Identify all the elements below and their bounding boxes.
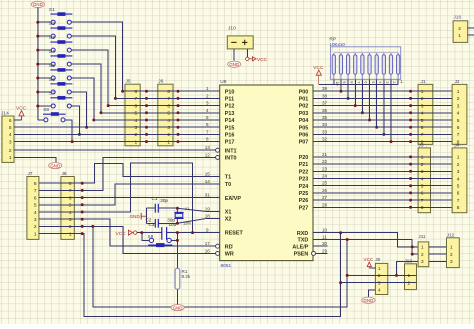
wire P11 bus row	[115, 97, 205, 99]
svg-text:2: 2	[69, 224, 72, 230]
wire S6 left pin	[38, 91, 51, 93]
wire P26 to J3/J4	[327, 199, 452, 201]
connector J3 body	[418, 148, 430, 213]
wire C3 to RESET pin	[167, 232, 206, 234]
svg-text:3: 3	[421, 103, 424, 109]
wire P22 to J3/J4	[327, 170, 452, 172]
svg-text:2: 2	[421, 252, 424, 257]
ground below R1	[171, 305, 184, 311]
svg-text:7: 7	[69, 188, 72, 194]
svg-text:J2: J2	[455, 79, 460, 85]
pin 4 P13	[205, 112, 219, 114]
svg-text:11: 11	[322, 235, 327, 240]
svg-text:9: 9	[342, 81, 347, 83]
svg-text:1: 1	[9, 155, 12, 161]
svg-text:16: 16	[205, 248, 211, 253]
wire J8 pin4 to reset rail	[39, 163, 193, 233]
junction	[145, 140, 148, 143]
svg-text:36: 36	[322, 108, 328, 113]
svg-text:T0: T0	[225, 182, 231, 188]
wire P13 bus row	[101, 112, 205, 114]
pin 9 RESET	[205, 232, 219, 234]
wire P17 bus row	[14, 141, 205, 143]
svg-text:3: 3	[385, 81, 390, 83]
svg-text:8: 8	[34, 181, 37, 187]
svg-text:8.2k: 8.2k	[182, 274, 191, 279]
svg-text:4: 4	[378, 288, 381, 293]
switch S3	[49, 35, 73, 52]
resistor RP element 4	[354, 53, 357, 80]
wire J14 pin1 to GND	[14, 157, 56, 162]
svg-text:S8: S8	[43, 107, 49, 113]
wire J9 pin4 to GND	[368, 290, 375, 297]
svg-text:21: 21	[322, 152, 328, 157]
junction	[368, 119, 371, 122]
wire J11 to J12 row2	[429, 253, 447, 255]
junction	[36, 104, 39, 107]
svg-text:S5: S5	[49, 63, 55, 69]
junction	[409, 184, 412, 187]
svg-text:J6: J6	[158, 79, 163, 85]
svg-text:3: 3	[421, 259, 424, 264]
svg-text:1: 1	[167, 139, 170, 145]
svg-text:1: 1	[206, 86, 209, 91]
svg-text:J14: J14	[1, 111, 9, 117]
svg-text:P15: P15	[225, 125, 235, 131]
svg-text:13: 13	[205, 145, 211, 150]
wire P10 bus row	[123, 90, 206, 92]
svg-text:5: 5	[457, 118, 460, 124]
svg-text:VCC: VCC	[257, 57, 268, 63]
junction	[409, 126, 412, 129]
junction	[145, 133, 148, 136]
junction	[176, 239, 179, 242]
wire S4 to P13 row	[72, 64, 102, 113]
svg-text:GND: GND	[229, 62, 239, 67]
wire P24 to J3/J4	[327, 185, 452, 187]
ground J9	[362, 297, 375, 303]
svg-text:6: 6	[364, 81, 369, 83]
svg-text:1: 1	[421, 245, 424, 250]
svg-text:5: 5	[421, 184, 424, 190]
wire J11 to J12 row1	[429, 246, 447, 248]
wire RP to P07	[390, 79, 392, 141]
wire P25 to J3/J4	[327, 192, 452, 194]
svg-text:INT1: INT1	[225, 148, 237, 154]
wire S2 left pin	[38, 35, 51, 37]
junction	[176, 207, 179, 210]
svg-text:34: 34	[322, 122, 328, 127]
junction	[411, 253, 414, 256]
junction	[36, 63, 39, 66]
svg-text:P27: P27	[299, 205, 309, 211]
svg-text:10: 10	[322, 228, 328, 233]
svg-text:5: 5	[69, 203, 72, 209]
svg-text:1: 1	[69, 231, 72, 237]
svg-text:VCC: VCC	[116, 231, 127, 237]
svg-text:6: 6	[167, 103, 170, 109]
pin 5 P14	[205, 119, 219, 121]
svg-text:GND: GND	[173, 305, 183, 310]
svg-text:P26: P26	[299, 198, 309, 204]
wire S9 right to reset node	[171, 239, 177, 241]
svg-text:5: 5	[371, 81, 376, 83]
junction	[81, 189, 84, 192]
connector J7	[27, 177, 39, 240]
svg-text:P24: P24	[299, 184, 309, 190]
svg-text:8051: 8051	[221, 263, 232, 269]
wire RP pin1 stub	[397, 79, 399, 84]
svg-text:1: 1	[421, 155, 424, 161]
junction	[140, 231, 143, 234]
junction	[176, 231, 179, 234]
pin 15 T1	[205, 176, 219, 178]
pin 18 X2	[205, 218, 219, 220]
junction	[92, 119, 95, 122]
svg-text:3: 3	[167, 125, 170, 131]
connector J8 body	[61, 177, 74, 240]
wire RP to P02	[354, 79, 356, 105]
wire P15 bus row	[14, 126, 205, 128]
junction	[145, 111, 148, 114]
svg-text:27: 27	[322, 195, 328, 200]
svg-text:J1: J1	[421, 79, 426, 85]
switch S1	[49, 7, 73, 24]
resistor RP element 7	[375, 53, 378, 80]
svg-text:4: 4	[135, 118, 138, 124]
svg-text:19: 19	[205, 206, 211, 211]
svg-text:1: 1	[458, 33, 461, 39]
wire J10 plus to VCC	[246, 49, 248, 59]
junction	[107, 104, 110, 107]
wire VCC stem	[21, 116, 23, 120]
svg-text:J16: J16	[453, 15, 461, 21]
junction	[177, 97, 180, 100]
pin 24 P23	[313, 178, 327, 180]
wire GND stem to switch bus	[37, 8, 39, 23]
svg-text:14: 14	[205, 179, 211, 184]
connector J2	[452, 84, 467, 144]
svg-text:8: 8	[167, 89, 170, 95]
wire C1-C2 common	[146, 208, 148, 223]
svg-text:2: 2	[450, 252, 453, 257]
svg-text:P05: P05	[299, 125, 309, 131]
connector J12	[447, 238, 460, 268]
junction	[339, 90, 342, 93]
svg-text:31: 31	[205, 193, 211, 198]
connector J5 body	[125, 84, 140, 146]
svg-text:3: 3	[9, 139, 12, 145]
junction	[375, 126, 378, 129]
ground below J14 pin1	[49, 163, 62, 169]
svg-text:4: 4	[206, 108, 209, 113]
svg-text:7: 7	[421, 132, 424, 138]
svg-text:2: 2	[206, 93, 209, 98]
junction	[100, 111, 103, 114]
junction	[91, 225, 94, 228]
wire J8 pin1 bottom bus to RXD	[39, 233, 341, 317]
wire J8 pin6 to EA/VP	[39, 197, 205, 199]
pin 36 P03	[313, 112, 327, 114]
wire S1 to P10 row	[72, 22, 123, 91]
plus mark	[242, 40, 247, 45]
crystal Y1 12M	[174, 206, 190, 225]
switch S7	[49, 91, 73, 108]
svg-text:PSEN: PSEN	[294, 252, 309, 258]
switch S6	[49, 77, 73, 94]
svg-text:4: 4	[69, 210, 72, 216]
pin 39 P00	[313, 90, 327, 92]
pin 34 P05	[313, 126, 327, 128]
pin 13 INT1	[205, 149, 215, 151]
svg-text:4: 4	[457, 111, 460, 117]
svg-text:4: 4	[421, 111, 424, 117]
wire RP to P03	[361, 79, 363, 113]
wire J8 pin7 to INT0	[39, 157, 216, 190]
svg-text:RESET: RESET	[225, 231, 244, 237]
svg-text:3: 3	[450, 259, 453, 264]
wire RP common bus	[334, 52, 398, 54]
svg-text:17: 17	[205, 241, 211, 246]
pin 16 WR	[205, 252, 215, 254]
junction	[145, 104, 148, 107]
resistor RP element 5	[361, 53, 364, 80]
svg-text:6: 6	[34, 195, 37, 201]
wire C1 to X1 node	[158, 207, 177, 209]
svg-text:4: 4	[9, 132, 12, 138]
wire J8 pin2 bottom bus to TXD	[93, 226, 347, 307]
pin 12 INT0	[205, 156, 215, 158]
svg-text:X1: X1	[225, 210, 232, 216]
junction	[36, 90, 39, 93]
junction	[81, 225, 84, 228]
wire P12 bus row	[108, 105, 205, 107]
pin 38 P01	[313, 97, 327, 99]
svg-text:9: 9	[206, 228, 209, 233]
svg-text:P23: P23	[299, 177, 309, 183]
connector J11	[418, 242, 429, 267]
svg-text:8: 8	[349, 81, 354, 83]
svg-text:5: 5	[135, 111, 138, 117]
svg-text:J4: J4	[455, 142, 460, 148]
wire RP pin10 stub	[333, 79, 335, 84]
svg-text:3: 3	[457, 169, 460, 175]
wire C2 left	[147, 222, 156, 224]
wire to X2	[177, 219, 205, 224]
junction	[409, 191, 412, 194]
pin 30 ALE/P	[313, 245, 327, 247]
svg-text:3: 3	[378, 280, 381, 285]
svg-text:P12: P12	[225, 104, 235, 110]
junction	[409, 199, 412, 202]
svg-text:S7: S7	[49, 91, 55, 97]
svg-text:30p: 30p	[167, 218, 175, 223]
svg-text:S2: S2	[49, 21, 55, 27]
svg-text:P00: P00	[299, 89, 309, 95]
pin 21 P20	[313, 156, 327, 158]
svg-text:P07: P07	[299, 140, 309, 146]
switch S8	[43, 107, 66, 122]
capacitor C3	[149, 222, 177, 240]
svg-text:C1: C1	[152, 196, 158, 201]
svg-text:R1: R1	[182, 269, 188, 274]
svg-text:GND: GND	[33, 2, 43, 7]
svg-text:J13: J13	[405, 258, 413, 263]
svg-text:7: 7	[356, 81, 361, 83]
pin 29 PSEN	[316, 252, 328, 254]
svg-text:1: 1	[421, 89, 424, 95]
svg-text:2: 2	[9, 148, 12, 154]
svg-text:3: 3	[135, 125, 138, 131]
svg-text:GND: GND	[130, 214, 141, 219]
svg-text:P16: P16	[225, 133, 235, 139]
svg-text:P02: P02	[299, 104, 309, 110]
pin 32 P07	[313, 141, 327, 143]
wire S1 left pin	[38, 21, 51, 23]
wire P23 to J3/J4	[327, 178, 452, 180]
pin 6 P15	[205, 126, 219, 128]
pin 23 P22	[313, 170, 327, 172]
wire TXD to J11 pin2	[327, 240, 418, 255]
wire S6 to P15 row	[72, 92, 87, 127]
svg-text:GND: GND	[50, 163, 60, 168]
svg-text:6: 6	[421, 191, 424, 197]
pin 31 EA/VP	[205, 197, 219, 199]
svg-text:7: 7	[457, 198, 460, 204]
junction	[145, 119, 148, 122]
wire VCC to C3	[137, 232, 162, 234]
pin 14 T0	[205, 183, 219, 185]
pin 1 P10	[205, 90, 219, 92]
junction	[145, 126, 148, 129]
wire RP to P05	[376, 79, 378, 127]
svg-text:1: 1	[135, 139, 138, 145]
pin 2 P11	[205, 97, 219, 99]
svg-text:WR: WR	[225, 252, 234, 258]
junction	[177, 119, 180, 122]
svg-text:J12: J12	[447, 232, 455, 237]
svg-text:2: 2	[135, 132, 138, 138]
power VCC reset	[116, 230, 137, 237]
junction	[176, 222, 179, 225]
svg-text:ALE/P: ALE/P	[292, 244, 308, 250]
junction	[78, 133, 81, 136]
svg-text:24: 24	[322, 174, 328, 179]
junction	[81, 182, 84, 185]
switch S9	[148, 234, 173, 247]
junction	[409, 155, 412, 158]
svg-text:1: 1	[457, 155, 460, 161]
wire J16 pin2 stub	[468, 27, 474, 29]
junction	[361, 111, 364, 114]
power VCC J9	[367, 262, 371, 268]
junction	[145, 90, 148, 93]
junction	[177, 126, 180, 129]
svg-text:23: 23	[322, 166, 328, 171]
svg-text:7: 7	[34, 188, 37, 194]
wire RP to P04	[369, 79, 371, 120]
wire S5 to P14 row	[72, 78, 94, 120]
wire C1 left	[147, 207, 156, 209]
pin 22 P21	[313, 163, 327, 165]
wire P00 to J1/J2	[327, 90, 452, 92]
svg-text:S4: S4	[49, 49, 55, 55]
pin 33 P06	[313, 133, 327, 135]
svg-text:3: 3	[34, 217, 37, 223]
svg-text:6: 6	[457, 125, 460, 131]
pin 19 X1	[205, 210, 219, 212]
svg-text:2: 2	[457, 162, 460, 168]
svg-text:15: 15	[205, 172, 211, 177]
pin 10 RXD	[313, 232, 327, 234]
svg-text:P14: P14	[225, 118, 235, 124]
junction	[346, 238, 349, 241]
junction	[36, 49, 39, 52]
wire S7 left pin	[38, 105, 51, 107]
resistor RP element 6	[368, 53, 371, 80]
svg-text:5: 5	[9, 125, 12, 131]
svg-text:2: 2	[378, 273, 381, 278]
svg-text:5: 5	[34, 203, 37, 209]
svg-text:P11: P11	[225, 97, 234, 103]
svg-text:7: 7	[421, 198, 424, 204]
IC U9 8051	[220, 85, 313, 261]
wire J8 pin5 to T0	[39, 184, 205, 205]
svg-text:7: 7	[206, 129, 209, 134]
wire S3 to P12 row	[72, 50, 109, 105]
svg-text:4: 4	[34, 210, 37, 216]
junction	[36, 35, 39, 38]
resistor RP element 1	[332, 53, 335, 80]
pin 8 P17	[205, 141, 219, 143]
svg-text:1: 1	[34, 231, 37, 237]
svg-text:39: 39	[322, 86, 328, 91]
wire VCC stem RP	[318, 75, 320, 84]
svg-text:J8: J8	[62, 171, 67, 177]
junction	[409, 133, 412, 136]
svg-text:8: 8	[135, 89, 138, 95]
wire S8 left pin	[38, 119, 44, 121]
svg-text:2: 2	[458, 26, 461, 32]
svg-text:12: 12	[205, 152, 211, 157]
svg-text:26: 26	[322, 188, 328, 193]
svg-text:J11: J11	[418, 234, 426, 239]
junction	[36, 77, 39, 80]
svg-text:S6: S6	[49, 77, 55, 83]
wire RP to P00	[340, 79, 342, 91]
svg-text:8: 8	[206, 137, 209, 142]
wire J8 pin3 to RD	[39, 219, 216, 246]
svg-text:3: 3	[206, 101, 209, 106]
svg-text:P03: P03	[299, 111, 309, 117]
pin 3 P12	[205, 105, 219, 107]
svg-text:35: 35	[322, 115, 328, 120]
svg-text:37: 37	[322, 101, 328, 106]
svg-text:J7: J7	[28, 171, 33, 177]
svg-text:4: 4	[421, 176, 424, 182]
junction	[177, 140, 180, 143]
svg-text:3: 3	[457, 103, 460, 109]
svg-text:3: 3	[421, 169, 424, 175]
junction	[81, 196, 84, 199]
svg-text:2: 2	[34, 224, 37, 230]
junction	[191, 231, 194, 234]
svg-text:1: 1	[378, 266, 381, 271]
junction	[346, 274, 349, 277]
svg-text:RD: RD	[225, 244, 233, 250]
junction	[145, 97, 148, 100]
wire P01 to J1/J2	[327, 97, 452, 99]
